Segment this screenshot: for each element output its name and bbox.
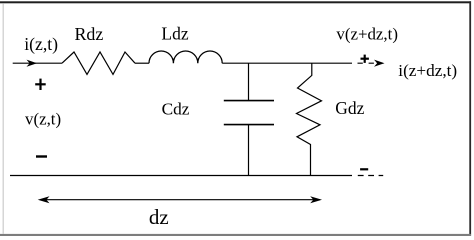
svg-text:Rdz: Rdz [75, 24, 104, 44]
svg-text:dz: dz [149, 205, 169, 229]
capacitor Cdz [224, 100, 274, 102]
current arrow i(z,t) [27, 60, 38, 67]
label minus (right) [360, 168, 368, 170]
inductor Ldz [149, 51, 222, 63]
svg-text:v(z+dz,t): v(z+dz,t) [336, 25, 398, 44]
resistor Rdz [62, 52, 135, 74]
wire capacitor top stub [248, 63, 250, 100]
label + (right) [361, 58, 369, 60]
svg-text:i(z,t): i(z,t) [24, 34, 58, 54]
wire capacitor bottom stub [248, 125, 250, 176]
svg-text:i(z+dz,t): i(z+dz,t) [398, 61, 457, 80]
svg-text:Gdz: Gdz [335, 98, 364, 118]
label minus (left) [36, 155, 47, 157]
frame (decorative) [0, 1, 471, 3]
dashed wire top-right [358, 62, 382, 64]
dashed wire bottom-right [358, 175, 383, 177]
wire top-right [222, 62, 352, 64]
arrow i(z+dz,t) [374, 60, 385, 67]
svg-text:v(z,t): v(z,t) [25, 110, 61, 129]
wire top-left [13, 62, 62, 64]
svg-text:Cdz: Cdz [162, 100, 190, 119]
conductance Gdz [297, 63, 322, 175]
svg-text:Ldz: Ldz [161, 24, 188, 44]
wire bottom [10, 175, 352, 177]
dimension arrow dz [40, 199, 320, 201]
wire between R and L [135, 62, 149, 64]
label + (left) [35, 83, 46, 85]
